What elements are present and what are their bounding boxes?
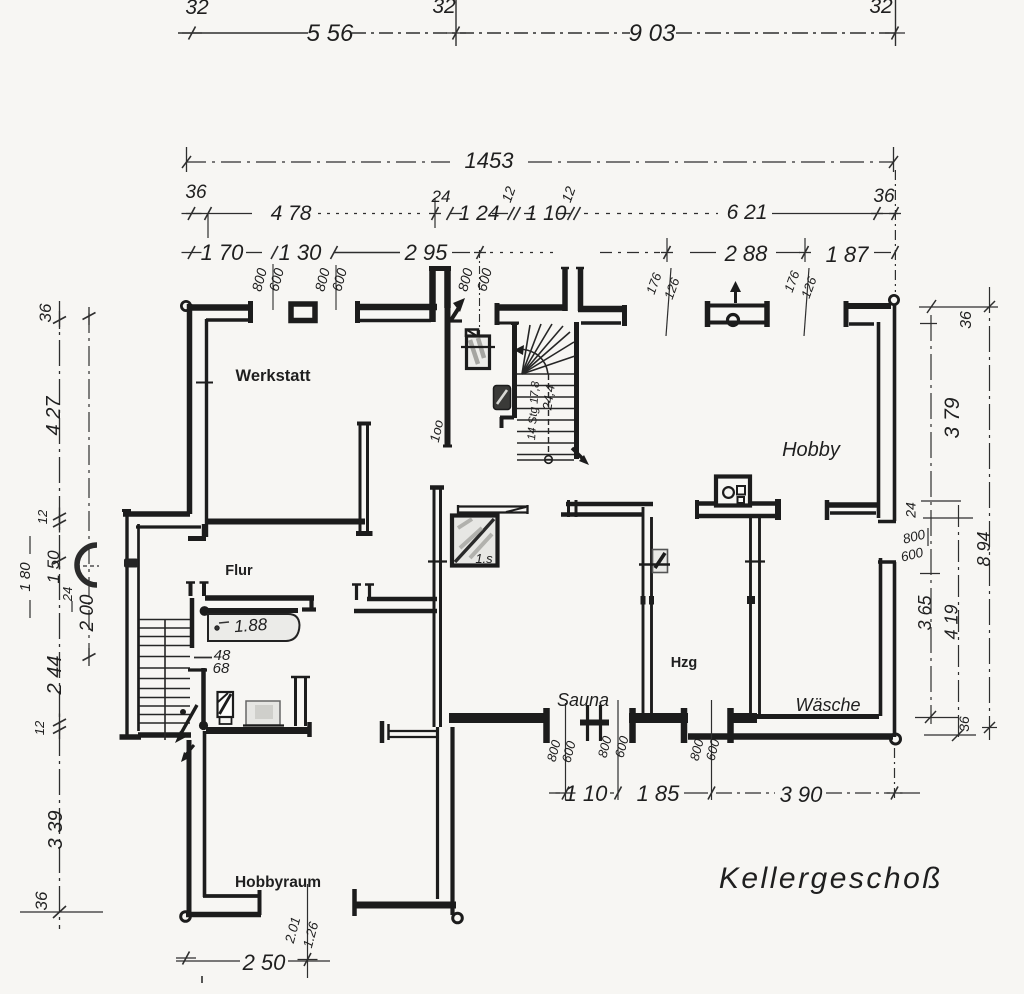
hobbyraum top wall bbox=[206, 727, 310, 734]
svg-text:32: 32 bbox=[432, 0, 456, 18]
dimension label 390 bbox=[780, 782, 824, 807]
svg-text:32: 32 bbox=[185, 0, 209, 19]
svg-text:36: 36 bbox=[873, 186, 895, 207]
room label Flur bbox=[225, 563, 253, 579]
svg-text:3 79: 3 79 bbox=[941, 397, 964, 438]
entrance door arrow bbox=[730, 281, 741, 303]
entrance door swing arc bbox=[76, 545, 99, 585]
svg-text:24: 24 bbox=[60, 587, 75, 602]
dimension label 250 bbox=[242, 950, 287, 975]
left label 12 a bbox=[35, 509, 50, 524]
svg-text:Hzg: Hzg bbox=[671, 655, 698, 671]
svg-text:12: 12 bbox=[35, 509, 50, 524]
window axis slash 176/126 (left) bbox=[666, 268, 671, 336]
room label Sauna bbox=[557, 690, 609, 710]
hobbyraum left inner wall bbox=[203, 731, 207, 897]
window axis w3 (dash-dot to chimney) bbox=[479, 250, 481, 342]
protrusion wall junction blob bbox=[124, 559, 138, 568]
svg-text:1 24: 1 24 bbox=[459, 202, 500, 225]
svg-text:1 30: 1 30 bbox=[279, 240, 323, 265]
bath right jog bbox=[302, 598, 316, 610]
left label 244 bbox=[44, 656, 66, 696]
right label 24 bbox=[903, 502, 919, 519]
hobby right wall outer upper bbox=[893, 304, 897, 521]
corner circle top-right bbox=[889, 295, 898, 304]
dimension label 187 bbox=[826, 242, 870, 267]
left label 36 bottom bbox=[32, 891, 51, 910]
svg-text:1 87: 1 87 bbox=[826, 242, 870, 267]
svg-text:4 27: 4 27 bbox=[43, 396, 65, 436]
dimension row 110/185/390 bbox=[549, 787, 920, 800]
left inner wall upper bbox=[196, 319, 213, 537]
dimension label 185 bbox=[637, 781, 681, 806]
dimension label 12 (a) bbox=[498, 184, 518, 204]
bathtub corner dot bbox=[200, 607, 209, 616]
waesche front wall piece bbox=[729, 708, 757, 743]
hobbyraum right wall inner bbox=[436, 727, 439, 899]
washer fixture bbox=[243, 701, 284, 726]
window axis slash 176/126 (right) bbox=[804, 268, 809, 336]
wall stub below center bbox=[352, 584, 374, 600]
dark fixture below chimney bbox=[494, 386, 511, 410]
door label 48/68 bbox=[194, 647, 231, 677]
svg-text:Werkstatt: Werkstatt bbox=[236, 367, 311, 385]
left label 200 bbox=[77, 594, 98, 632]
shower lintel bbox=[457, 505, 528, 514]
threshold left cap bbox=[382, 721, 389, 743]
bottom outer wall bbox=[688, 733, 893, 740]
hobby right wall inner upper bbox=[877, 322, 881, 518]
hzg wall fixture bbox=[639, 550, 670, 573]
window label 800/600 w2 bbox=[311, 266, 350, 293]
right dim line E bbox=[924, 505, 976, 741]
svg-text:1.88: 1.88 bbox=[233, 615, 268, 636]
dimension label 36 (row3 left) bbox=[185, 182, 207, 203]
svg-text:1 50: 1 50 bbox=[44, 550, 63, 584]
room label Hzg bbox=[671, 655, 698, 671]
stair bottom arrow bbox=[572, 448, 589, 465]
right label 36 top bbox=[958, 311, 975, 329]
dimension label 170 bbox=[201, 240, 245, 265]
dimension row 170/130/295/288/187 line bbox=[182, 238, 899, 262]
shower label 1.5 bbox=[475, 551, 493, 566]
right dim line C bbox=[915, 300, 998, 724]
stair text 14 Stg 17,8 bbox=[526, 380, 542, 440]
svg-text:1 10: 1 10 bbox=[565, 781, 609, 806]
left label 150 bbox=[44, 550, 63, 584]
svg-text:Flur: Flur bbox=[225, 563, 253, 579]
dimension label 110 bbox=[565, 781, 609, 806]
dimension label 110 bbox=[526, 202, 567, 225]
stair walking line bbox=[548, 374, 550, 455]
dimension label 288 bbox=[724, 241, 769, 266]
dimension row 1453 line bbox=[182, 147, 898, 172]
svg-text:24: 24 bbox=[903, 502, 919, 519]
right label 379 bbox=[941, 397, 964, 438]
entrance arrow up-right bbox=[449, 298, 465, 321]
porch wall stub bbox=[429, 266, 451, 322]
svg-text:24: 24 bbox=[431, 187, 451, 206]
corner circle bottom-mid bbox=[453, 913, 463, 923]
svg-text:2 95: 2 95 bbox=[404, 240, 449, 265]
corner circle top-left bbox=[181, 301, 190, 310]
corner circle bottom-right bbox=[891, 734, 901, 744]
svg-text:Sauna: Sauna bbox=[557, 690, 609, 710]
svg-text:3 39: 3 39 bbox=[45, 811, 67, 850]
dimension label 36 (row3 right) bbox=[873, 186, 895, 207]
bath lower stub bbox=[291, 676, 310, 726]
window axis w2 bbox=[335, 265, 337, 310]
right window sill bottom bbox=[878, 560, 896, 563]
protrusion top wall bbox=[123, 514, 201, 527]
left label 339 bbox=[45, 811, 67, 850]
dimension row 556/903 line bbox=[178, 27, 905, 40]
window label 800/600 w3 bbox=[454, 266, 495, 293]
svg-text:Kellergeschoß: Kellergeschoß bbox=[719, 862, 943, 895]
protrusion bottom wall bbox=[138, 732, 191, 738]
svg-text:Hobbyraum: Hobbyraum bbox=[235, 874, 321, 891]
left label 180 bbox=[17, 536, 34, 618]
threshold double line bbox=[388, 731, 438, 737]
right label 365 bbox=[915, 595, 935, 631]
sauna left wall (double) bbox=[428, 488, 447, 728]
left outer wall upper bbox=[187, 304, 193, 514]
door width label 100 bbox=[427, 418, 446, 444]
left label 36 top bbox=[36, 303, 55, 322]
sauna oven symbol bbox=[580, 705, 609, 741]
top-right wall segment bbox=[844, 301, 891, 327]
left dim line B bbox=[83, 307, 96, 666]
dimension label 1453 bbox=[465, 148, 515, 173]
dimension label 621 bbox=[727, 201, 768, 224]
svg-text:68: 68 bbox=[213, 660, 230, 677]
svg-text:32: 32 bbox=[869, 0, 893, 18]
dimension row 478/124/110/621 line bbox=[182, 198, 902, 238]
bath top wall bbox=[205, 595, 314, 601]
svg-text:1453: 1453 bbox=[465, 148, 515, 173]
center vertical wall bbox=[356, 424, 373, 534]
hobbyraum left outer wall bbox=[187, 740, 192, 913]
right window label 800/600 bbox=[899, 527, 928, 565]
dimension label 32 (right) bbox=[869, 0, 895, 46]
right window sill top bbox=[878, 520, 896, 523]
protrusion outer wall bbox=[122, 509, 131, 737]
flur door step bbox=[188, 524, 206, 539]
waesche right wall inner lower bbox=[879, 558, 883, 716]
bottom window labels 800/600 (sauna left) bbox=[544, 738, 579, 765]
stair walking line arc bbox=[514, 345, 548, 374]
left label 24 bbox=[60, 587, 75, 612]
dimension label 478 bbox=[271, 202, 312, 225]
window label 176/126 (left) bbox=[643, 270, 683, 301]
stair left wall bbox=[500, 322, 518, 428]
dimension label 130 bbox=[279, 240, 323, 265]
hzg front wall bbox=[629, 708, 688, 743]
dimension label 24 (row3) bbox=[431, 187, 451, 206]
werkstatt top wall right segment bbox=[355, 301, 437, 323]
stair winder treads bbox=[522, 324, 575, 374]
svg-text:Wäsche: Wäsche bbox=[795, 695, 860, 715]
waesche bottom inner wall bbox=[750, 714, 879, 719]
stair right wall bbox=[574, 322, 579, 459]
svg-text:6 21: 6 21 bbox=[727, 201, 768, 224]
stairwell stub pair bbox=[561, 268, 584, 311]
stair walking line circle bbox=[544, 456, 553, 464]
hobbyraum bottom wall bbox=[186, 890, 261, 915]
waesche left wall (double) bbox=[745, 518, 765, 716]
svg-text:4 78: 4 78 bbox=[271, 202, 312, 225]
dimension label 124 bbox=[459, 202, 500, 225]
dimension label 295 bbox=[404, 240, 449, 265]
svg-text:2 44: 2 44 bbox=[44, 656, 66, 696]
dimension row 250 bbox=[176, 952, 330, 984]
right dim line D bbox=[982, 287, 997, 740]
chimney wall hzg bbox=[695, 499, 781, 520]
entrance door symbol bbox=[706, 301, 769, 327]
svg-text:12: 12 bbox=[32, 720, 47, 735]
svg-text:2 88: 2 88 bbox=[724, 241, 769, 266]
svg-text:Hobby: Hobby bbox=[782, 439, 841, 461]
svg-text:36: 36 bbox=[36, 303, 55, 322]
corner circle bottom-left bbox=[181, 912, 191, 922]
hobby bottom wall bbox=[825, 500, 879, 520]
stair treads straight run bbox=[517, 374, 574, 460]
window label 800/600 w1 bbox=[248, 266, 287, 293]
svg-text:36: 36 bbox=[185, 182, 207, 203]
dimension label 556 bbox=[307, 20, 354, 47]
corner blob flur bbox=[199, 721, 208, 730]
werkstatt top wall left segment bbox=[189, 301, 252, 323]
axis line 2.01/1.26 bbox=[307, 884, 309, 978]
window axis w1 bbox=[272, 264, 274, 310]
bottom window labels 800/600 (sauna right) bbox=[595, 734, 632, 760]
room label Werkstatt bbox=[236, 367, 311, 385]
svg-text:1.s: 1.s bbox=[475, 551, 493, 566]
top wall right of stairs bbox=[578, 305, 625, 326]
labels 2.01 / 1.26 bbox=[282, 915, 322, 949]
svg-text:1 80: 1 80 bbox=[17, 562, 34, 592]
svg-text:3 90: 3 90 bbox=[780, 782, 824, 807]
hzg top wall (corridor side) bbox=[561, 500, 653, 517]
shower square bbox=[452, 516, 498, 566]
stair top wall bbox=[495, 303, 566, 325]
axis line right top bbox=[894, 170, 896, 292]
svg-text:8 94: 8 94 bbox=[974, 531, 994, 566]
werkstatt bottom wall bbox=[205, 519, 365, 525]
svg-text:36: 36 bbox=[958, 311, 975, 329]
flur left wall mid bbox=[190, 598, 195, 648]
right label 419 bbox=[942, 604, 962, 639]
chimney hzg box bbox=[716, 477, 750, 506]
bottom window labels 800/600 (waesche) bbox=[687, 737, 723, 763]
svg-text:1 70: 1 70 bbox=[201, 240, 245, 265]
hzg left wall (double) bbox=[641, 507, 655, 713]
right label 36 bottom bbox=[956, 716, 972, 732]
boiler fixture bbox=[218, 692, 234, 724]
svg-text:1 10: 1 10 bbox=[526, 202, 567, 225]
protrusion bottom cap bbox=[120, 734, 142, 740]
room label Hobby bbox=[782, 439, 841, 461]
svg-text:3 65: 3 65 bbox=[915, 595, 935, 631]
chimney stairwell bbox=[461, 330, 495, 369]
svg-text:5 56: 5 56 bbox=[307, 20, 354, 47]
right label 894 bbox=[974, 531, 994, 566]
dim verticals bottom bbox=[566, 700, 895, 802]
corridor left wall bbox=[443, 306, 452, 446]
dimension label 32 (mid) bbox=[432, 0, 456, 46]
bath top stub pair bbox=[186, 582, 209, 596]
dimension label 903 bbox=[629, 20, 676, 47]
flur stairs treads bbox=[140, 620, 191, 741]
sauna front wall bbox=[449, 708, 547, 743]
svg-text:9 03: 9 03 bbox=[629, 20, 676, 47]
hobbyraum right wall outer bbox=[450, 727, 454, 915]
svg-text:36: 36 bbox=[32, 891, 51, 910]
window pillar bbox=[291, 304, 315, 321]
left label 427 bbox=[43, 396, 65, 436]
svg-text:4 19: 4 19 bbox=[942, 604, 962, 639]
bathtub bbox=[207, 611, 300, 642]
left dim line A bbox=[20, 301, 103, 929]
waesche right wall outer lower bbox=[893, 562, 897, 737]
left label 12 b bbox=[32, 720, 47, 735]
flur stairs arrows bbox=[175, 705, 197, 762]
room label Waesche bbox=[795, 695, 860, 715]
protrusion inner wall bbox=[137, 524, 140, 731]
dimension label 32 (left) bbox=[185, 0, 209, 19]
svg-text:2 00: 2 00 bbox=[77, 594, 98, 632]
hobbyraum2 bottom wall bbox=[355, 889, 457, 916]
svg-text:36: 36 bbox=[956, 716, 972, 732]
svg-text:1 85: 1 85 bbox=[637, 781, 681, 806]
corridor south double wall bbox=[354, 599, 437, 611]
dimension label 12 (b) bbox=[558, 184, 578, 204]
title Kellergeschoss bbox=[719, 862, 943, 895]
window label 176/126 (right) bbox=[781, 268, 820, 300]
stair text 24,4 bbox=[539, 384, 558, 412]
flur left wall lower bbox=[188, 668, 207, 723]
svg-text:2 50: 2 50 bbox=[242, 950, 287, 975]
room label Hobbyraum bbox=[235, 874, 321, 891]
hobbyraum top wall right cap bbox=[307, 722, 312, 737]
